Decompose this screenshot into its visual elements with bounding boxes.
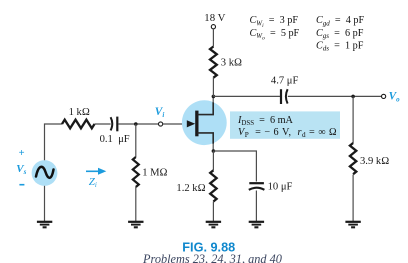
- ground under 1.2k: [206, 222, 221, 228]
- resistor 1 kOhm: [62, 120, 94, 129]
- svg-text:VP = − 6 V, rd = ∞ Ω: VP = − 6 V, rd = ∞ Ω: [238, 127, 337, 139]
- capacitor 0.1 uF (curved left plate, straight right plate): [111, 117, 113, 130]
- JFET drain lead: [198, 102, 214, 115]
- JFET channel bar: [195, 111, 198, 137]
- svg-text:10 μF: 10 μF: [268, 182, 293, 193]
- Zi arrow: [86, 170, 100, 172]
- node dot output: [351, 95, 355, 99]
- resistor 1.2 kOhm: [210, 170, 216, 201]
- ground under 3.9k: [345, 222, 360, 228]
- svg-text:Problems 23, 24, 31, and 40: Problems 23, 24, 31, and 40: [142, 252, 282, 263]
- svg-text:1.2 kΩ: 1.2 kΩ: [176, 183, 205, 194]
- wire: Vs bottom to ground: [44, 186, 46, 221]
- capacitor 4.7 uF (straight left, curved right): [280, 89, 282, 104]
- node Vi open circle: [159, 122, 163, 126]
- svg-text:Cgs = 6 pF: Cgs = 6 pF: [316, 28, 364, 40]
- wire: JFET source down to node: [212, 143, 214, 151]
- capacitor 10 uF (straight top, curved bottom): [249, 182, 264, 184]
- wire: 3.9k to ground: [352, 175, 354, 221]
- svg-text:CWo = 5 pF: CWo = 5 pF: [250, 28, 300, 42]
- JFET Q1 circle: [182, 100, 227, 145]
- wire: 10uF to ground: [255, 191, 257, 222]
- svg-text:Vo: Vo: [389, 91, 401, 104]
- output wire left segment: [213, 95, 280, 97]
- wire: 3k down to drain node: [212, 77, 214, 96]
- wire: resistor to capacitor: [95, 123, 111, 125]
- resistor 3 kOhm: [210, 47, 217, 78]
- wire: output node down to 3.9k: [352, 96, 354, 143]
- supply terminal 18V: [211, 25, 215, 29]
- svg-text:1 kΩ: 1 kΩ: [69, 107, 90, 118]
- svg-text:Cds = 1 pF: Cds = 1 pF: [316, 41, 364, 53]
- resistor 1 MOhm: [133, 157, 139, 187]
- minus sign: [19, 184, 24, 186]
- ground under 10uF: [249, 222, 264, 228]
- wire: source node to 1.2k: [212, 151, 214, 170]
- svg-text:0.1 μF: 0.1 μF: [100, 134, 130, 145]
- info box IDSS/VP: [230, 111, 340, 138]
- svg-text:Cgd = 4 pF: Cgd = 4 pF: [316, 15, 364, 27]
- svg-text:Zi: Zi: [89, 176, 97, 189]
- svg-text:4.7 μF: 4.7 μF: [271, 76, 299, 87]
- output wire right segment: [288, 95, 382, 97]
- node dot drain: [212, 95, 216, 99]
- node dot (gate junction): [134, 122, 138, 126]
- JFET source lead: [198, 133, 214, 144]
- wire: drain up to node: [212, 96, 214, 103]
- source Vs circle: [32, 160, 58, 186]
- svg-text:1 MΩ: 1 MΩ: [142, 167, 168, 178]
- svg-text:18 V: 18 V: [204, 12, 225, 24]
- JFET gate arrow: [187, 120, 195, 127]
- sine wave in Vs: [36, 167, 54, 178]
- node Vo open circle: [382, 94, 386, 98]
- ground under 1 MOhm: [128, 222, 143, 228]
- wire: 1 MOhm drop: [135, 124, 137, 157]
- wire: bypass branch to 10uF: [213, 151, 256, 182]
- wire: Vi to gate: [163, 123, 188, 125]
- node dot source: [212, 149, 216, 153]
- ground under Vs: [37, 222, 52, 228]
- wire: supply to 3k: [212, 29, 214, 47]
- wire: 1 MOhm to ground: [135, 187, 137, 221]
- svg-text:3.9 kΩ: 3.9 kΩ: [360, 156, 389, 167]
- resistor 3.9 kOhm: [350, 143, 356, 174]
- wire: 1.2k to ground: [212, 202, 214, 222]
- wire: Vs top up to corner and right to resistor: [45, 124, 63, 160]
- wire: capacitor to junction to Vi: [118, 123, 158, 125]
- svg-text:+: +: [19, 148, 25, 159]
- svg-text:Vs: Vs: [16, 163, 26, 176]
- svg-text:3 kΩ: 3 kΩ: [221, 58, 242, 69]
- svg-text:Vi: Vi: [155, 106, 165, 119]
